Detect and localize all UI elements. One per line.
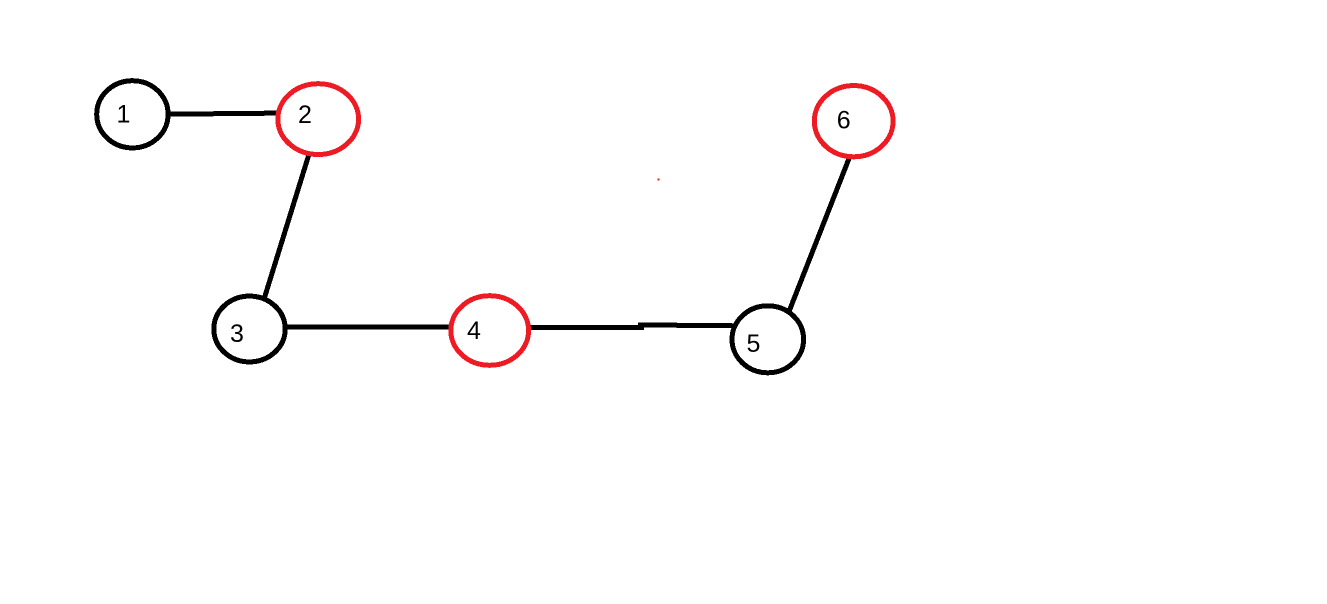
svg-text:5: 5 (747, 330, 761, 358)
stray red dot (658, 179, 660, 181)
node 6 circle (814, 86, 893, 157)
node 2 circle (278, 84, 359, 155)
wire edge 5-6 (788, 156, 850, 314)
wire edge 3-4 (284, 325, 455, 330)
svg-text:3: 3 (230, 320, 244, 348)
node 4 circle (451, 296, 529, 366)
svg-text:1: 1 (117, 101, 131, 129)
wire edge 4-5 left segment (526, 325, 644, 330)
wire edge 4-5 right segment (638, 322, 737, 328)
wire edge 2-3 (264, 152, 310, 300)
svg-text:4: 4 (467, 317, 481, 345)
node 3 circle (214, 296, 285, 362)
svg-text:2: 2 (298, 101, 312, 129)
wire edge 1-2 (168, 113, 280, 114)
node 5 circle (732, 306, 804, 373)
node 1 circle (97, 81, 168, 148)
svg-text:6: 6 (837, 106, 851, 134)
